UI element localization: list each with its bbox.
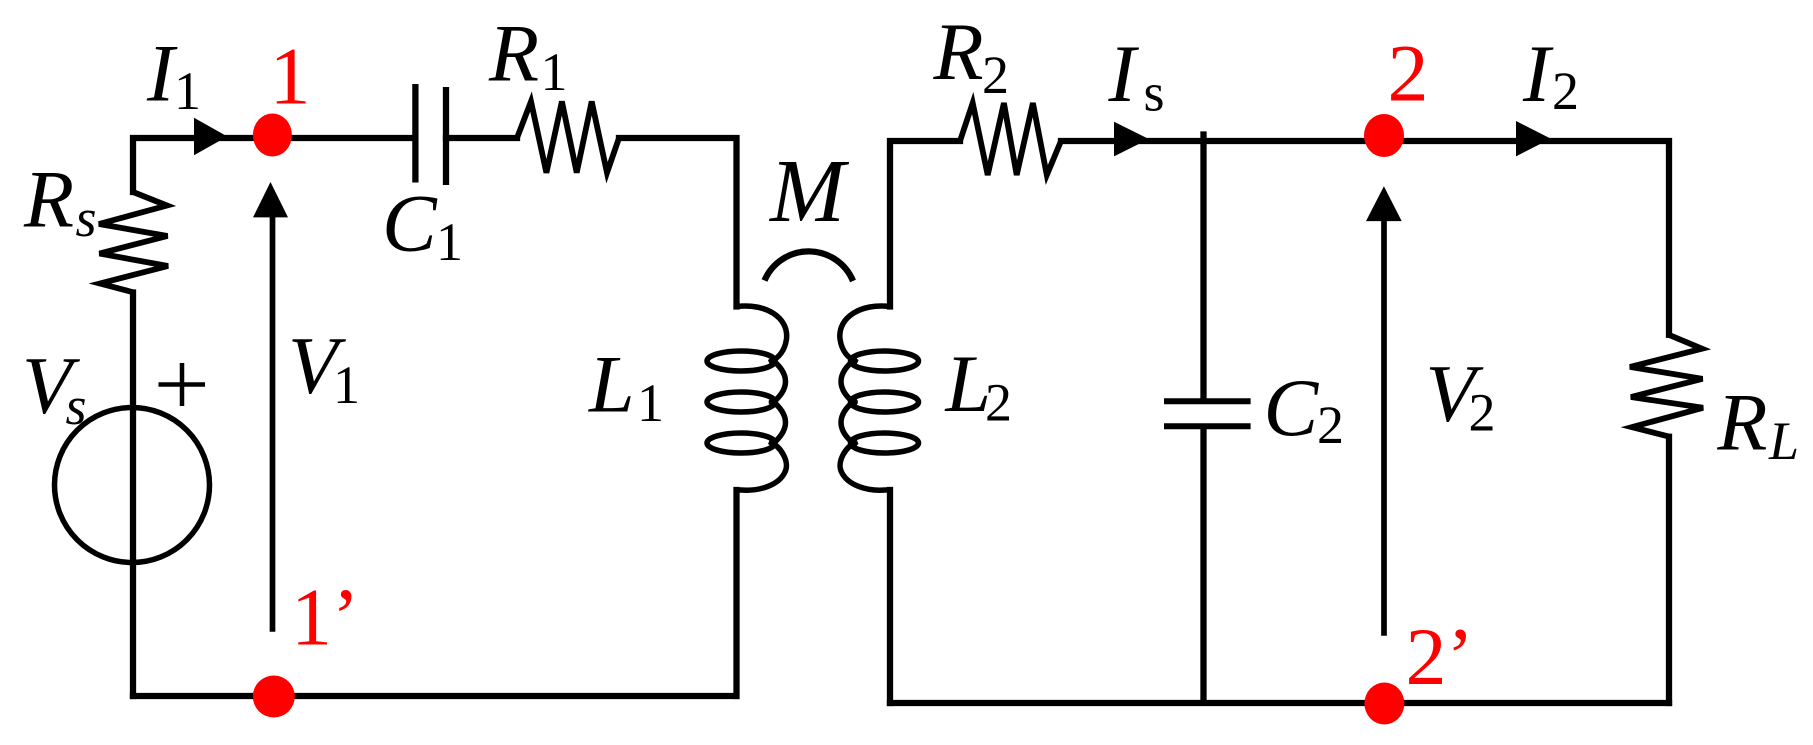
wire bottom of right loop: [890, 700, 1669, 706]
inductor L1 loop 3: [707, 433, 775, 453]
node 2' dot: [1364, 683, 1404, 725]
wire L2 bottom lead: [887, 490, 893, 703]
svg-text:I: I: [1108, 28, 1140, 119]
current arrow I2 head: [1516, 121, 1551, 156]
svg-text:R: R: [1716, 377, 1767, 468]
inductor L2 connector arc 1-2: [841, 358, 857, 405]
wire L2 top lead: [890, 141, 960, 307]
wire C1 to R1: [446, 135, 517, 141]
svg-text:s: s: [66, 376, 87, 436]
svg-text:R: R: [488, 7, 539, 98]
node 1' dot: [253, 676, 295, 718]
wire bottom of left loop: [133, 693, 736, 699]
svg-text:1: 1: [436, 212, 463, 272]
wire left vertical below Rs: [130, 293, 136, 697]
svg-text:2: 2: [1388, 28, 1429, 119]
resistor RL: [1630, 335, 1703, 437]
wire R2 to right corner: [1061, 141, 1669, 335]
inductor L1 entry arc: [737, 306, 787, 363]
svg-text:2: 2: [1317, 395, 1344, 455]
svg-text:C: C: [1264, 362, 1320, 453]
inductor L1 loop 2: [707, 392, 775, 412]
voltage arrow V1 head: [253, 182, 288, 217]
svg-text:1: 1: [174, 61, 201, 121]
svg-text:1: 1: [333, 355, 360, 415]
current arrow I1 head: [194, 118, 227, 156]
svg-text:2: 2: [985, 372, 1012, 432]
wire right vertical below RL: [1666, 437, 1672, 703]
inductor L1 connector arc 1-2: [770, 358, 786, 405]
svg-text:M: M: [768, 142, 850, 241]
wire top-left corner segment: [133, 138, 415, 192]
svg-text:L: L: [588, 339, 635, 430]
wire C2 bottom lead: [1200, 430, 1206, 701]
svg-text:1: 1: [541, 42, 568, 102]
svg-text:1: 1: [270, 31, 311, 122]
svg-text:2: 2: [1552, 61, 1579, 121]
resistor Rs: [99, 192, 168, 293]
voltage arrow V2 line: [1381, 219, 1387, 636]
svg-text:2: 2: [982, 45, 1009, 105]
mutual inductance arc M: [765, 251, 854, 281]
wire C2 top lead: [1200, 135, 1206, 399]
svg-text:s: s: [76, 188, 97, 248]
current arrow Is head: [1114, 122, 1149, 157]
svg-text:s: s: [1144, 62, 1165, 122]
svg-text:L: L: [1768, 411, 1799, 471]
capacitor C2 bottom plate: [1164, 423, 1251, 429]
svg-text:R: R: [23, 154, 74, 245]
resistor R2: [960, 103, 1061, 175]
inductor L1 exit arc: [737, 442, 787, 491]
svg-text:C: C: [382, 178, 438, 269]
voltage arrow V2 head: [1366, 186, 1402, 221]
inductor L2 entry arc: [840, 306, 890, 363]
inductor L2 loop 2: [851, 392, 919, 412]
voltage source Vs circle: [55, 408, 210, 563]
resistor R1: [517, 102, 619, 173]
plus sign of Vs: [159, 363, 206, 406]
inductor L2 loop 3: [851, 433, 919, 453]
inductor L2 connector arc 2-3: [841, 399, 857, 446]
svg-text:R: R: [933, 6, 984, 97]
svg-text:1’: 1’: [291, 572, 359, 663]
voltage arrow V1 line: [270, 215, 276, 632]
svg-text:2: 2: [1469, 382, 1496, 442]
svg-text:I: I: [1522, 28, 1554, 119]
inductor L2 exit arc: [840, 442, 890, 491]
capacitor C1 right plate: [443, 87, 449, 185]
wire L1 bottom lead: [733, 490, 739, 696]
capacitor C2 top plate: [1164, 398, 1251, 404]
svg-text:1: 1: [637, 373, 664, 433]
capacitor C1 left plate: [412, 84, 418, 183]
node 1 dot: [253, 114, 292, 157]
inductor L2 loop 1: [851, 351, 919, 371]
inductor L1 connector arc 2-3: [770, 399, 786, 446]
wire R1 to L1 top: [619, 138, 737, 307]
node 2 dot: [1364, 114, 1404, 157]
inductor L1 loop 1: [707, 351, 775, 371]
svg-text:2’: 2’: [1406, 611, 1474, 702]
